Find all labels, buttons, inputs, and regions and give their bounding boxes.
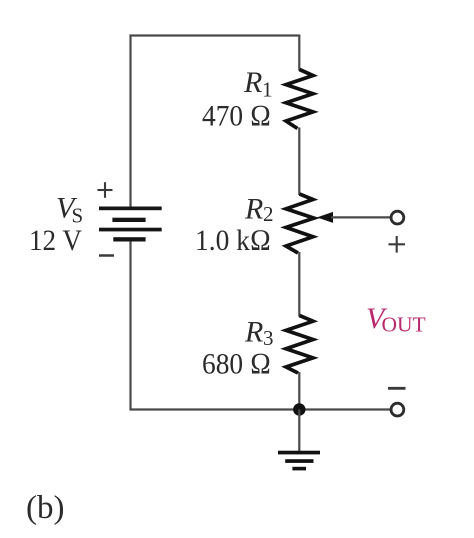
- wire junction to ground: [298, 410, 300, 453]
- wire left rail upper: [129, 35, 131, 209]
- svg-text:R: R: [244, 316, 263, 349]
- battery plus sign: [98, 182, 113, 198]
- resistor R1 zigzag: [286, 70, 313, 129]
- svg-text:R: R: [244, 192, 263, 225]
- battery VS plate long top: [99, 207, 162, 211]
- junction node dot: [293, 403, 305, 415]
- wire bottom horizontal: [130, 408, 392, 410]
- svg-text:12 V: 12 V: [29, 224, 82, 257]
- wire R1 to R2: [298, 128, 300, 196]
- wire right rail top (to R1): [298, 35, 300, 71]
- wire R2 to R3: [298, 252, 300, 317]
- svg-text:1.0 kΩ: 1.0 kΩ: [195, 224, 271, 257]
- battery VS plate short upper: [112, 218, 145, 222]
- ground symbol: [278, 451, 320, 471]
- potentiometer R2 zigzag: [286, 194, 314, 253]
- svg-text:1: 1: [262, 78, 273, 102]
- R2 wiper arrowhead: [317, 212, 333, 223]
- plus sign output: [389, 236, 406, 253]
- minus sign output: [388, 387, 406, 390]
- svg-text:470 Ω: 470 Ω: [202, 100, 271, 133]
- svg-text:680 Ω: 680 Ω: [202, 348, 271, 381]
- svg-text:3: 3: [263, 326, 274, 350]
- battery minus sign: [99, 254, 114, 257]
- svg-text:R: R: [243, 66, 262, 99]
- wire left rail lower: [129, 240, 131, 411]
- terminal circle top (+ output): [391, 211, 404, 224]
- wire R3 to junction: [298, 372, 300, 410]
- terminal circle bottom (- output): [391, 403, 404, 416]
- wire top horizontal: [130, 34, 300, 36]
- svg-text:OUT: OUT: [382, 313, 426, 337]
- resistor R3 zigzag: [286, 316, 313, 374]
- wire wiper to terminal: [331, 216, 391, 218]
- battery VS plate short bottom: [113, 237, 145, 241]
- svg-text:(b): (b): [26, 490, 64, 526]
- svg-text:2: 2: [263, 202, 274, 226]
- battery VS plate long lower: [99, 228, 162, 232]
